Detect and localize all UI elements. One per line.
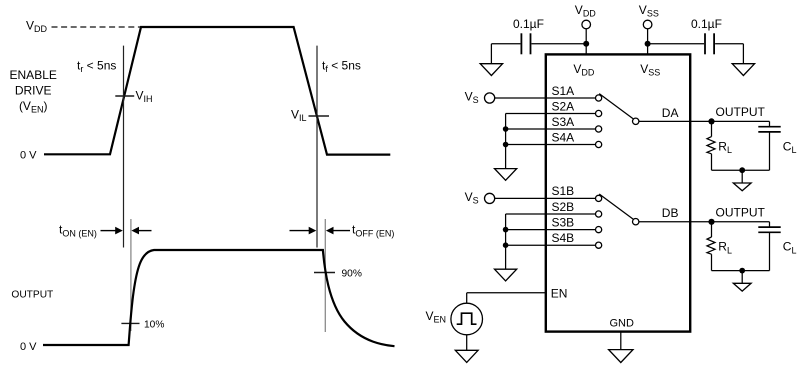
svg-text:10%: 10%: [144, 319, 164, 330]
svg-text:S4B: S4B: [552, 231, 575, 245]
svg-text:OUTPUT: OUTPUT: [11, 290, 53, 301]
svg-text:S1B: S1B: [552, 184, 575, 198]
svg-text:S2B: S2B: [552, 200, 575, 214]
svg-text:ENABLE: ENABLE: [10, 68, 57, 82]
svg-text:tf < 5ns: tf < 5ns: [322, 58, 361, 74]
svg-text:0.1µF: 0.1µF: [691, 17, 722, 31]
svg-text:90%: 90%: [342, 269, 362, 280]
svg-text:GND: GND: [610, 317, 635, 329]
svg-text:S4A: S4A: [552, 130, 575, 144]
svg-text:OUTPUT: OUTPUT: [716, 105, 766, 119]
svg-text:OUTPUT: OUTPUT: [716, 205, 766, 219]
svg-text:S3A: S3A: [552, 115, 575, 129]
svg-text:0 V: 0 V: [20, 149, 37, 161]
svg-text:DRIVE: DRIVE: [15, 84, 52, 98]
svg-text:S2A: S2A: [552, 99, 575, 113]
svg-text:tr < 5ns: tr < 5ns: [77, 58, 116, 74]
svg-text:DB: DB: [662, 206, 679, 220]
svg-text:0 V: 0 V: [20, 341, 37, 353]
svg-text:S3B: S3B: [552, 215, 575, 229]
svg-text:0.1µF: 0.1µF: [513, 17, 544, 31]
svg-text:S1A: S1A: [552, 84, 575, 98]
svg-text:DA: DA: [662, 106, 679, 120]
svg-text:EN: EN: [551, 287, 568, 301]
